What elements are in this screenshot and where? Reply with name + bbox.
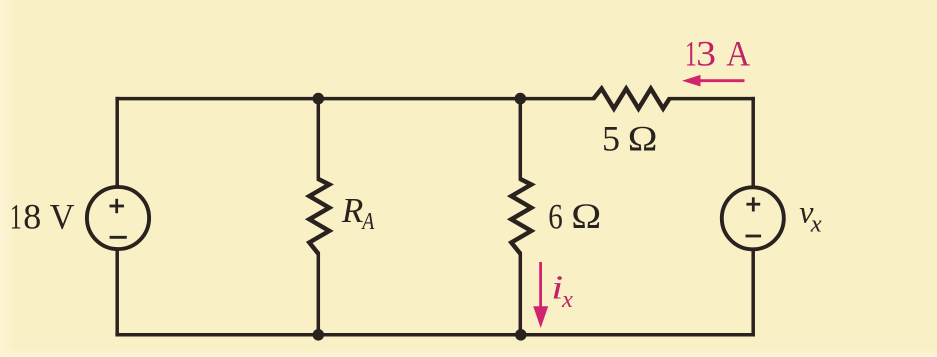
- svg-text:Ω: Ω: [571, 196, 601, 236]
- svg-text:1: 1: [685, 33, 697, 73]
- svg-text:1: 1: [10, 197, 22, 237]
- svg-text:8: 8: [23, 197, 41, 237]
- svg-text:5: 5: [602, 119, 620, 159]
- svg-text:3: 3: [696, 33, 716, 73]
- svg-text:Ω: Ω: [628, 118, 658, 158]
- svg-text:R: R: [341, 191, 363, 230]
- svg-text:V: V: [50, 197, 75, 237]
- svg-text:A: A: [726, 33, 750, 73]
- svg-text:A: A: [361, 208, 375, 235]
- svg-text:6: 6: [548, 197, 563, 237]
- svg-text:x: x: [810, 211, 822, 238]
- svg-text:x: x: [561, 286, 573, 313]
